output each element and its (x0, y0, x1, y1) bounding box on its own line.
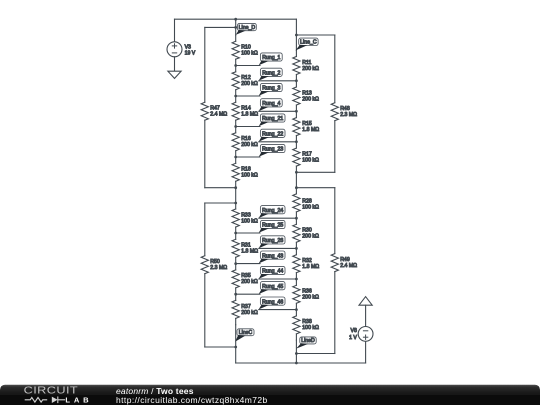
svg-text:Rung_22: Rung_22 (262, 132, 283, 138)
svg-text:2.4 MΩ: 2.4 MΩ (210, 112, 227, 118)
svg-text:1.8 MΩ: 1.8 MΩ (302, 127, 319, 133)
svg-text:V3: V3 (185, 44, 191, 50)
svg-text:LAB: LAB (65, 395, 90, 404)
svg-text:100 kΩ: 100 kΩ (241, 173, 258, 179)
svg-text:Rung_23: Rung_23 (262, 147, 283, 153)
svg-text:100 kΩ: 100 kΩ (241, 218, 258, 224)
svg-text:1.8 MΩ: 1.8 MΩ (241, 112, 258, 118)
svg-text:Rung_24: Rung_24 (262, 208, 283, 214)
svg-text:LineC: LineC (239, 330, 253, 336)
svg-text:19 V: 19 V (185, 51, 196, 57)
svg-text:100 kΩ: 100 kΩ (302, 157, 319, 163)
svg-text:Rung_46: Rung_46 (262, 299, 283, 305)
svg-text:200 kΩ: 200 kΩ (302, 295, 319, 301)
svg-text:Rung_45: Rung_45 (262, 284, 283, 290)
svg-text:100 kΩ: 100 kΩ (302, 205, 319, 211)
svg-text:LineD: LineD (301, 338, 315, 344)
svg-text:Rung_25: Rung_25 (262, 223, 283, 229)
svg-text:200 kΩ: 200 kΩ (302, 234, 319, 240)
svg-text:Rung_43: Rung_43 (262, 253, 283, 259)
svg-text:200 kΩ: 200 kΩ (302, 96, 319, 102)
svg-text:200 kΩ: 200 kΩ (241, 142, 258, 148)
svg-text:1.8 MΩ: 1.8 MΩ (241, 249, 258, 255)
svg-text:200 kΩ: 200 kΩ (241, 310, 258, 316)
svg-text:Line_D: Line_D (239, 25, 256, 31)
svg-text:Rung_2: Rung_2 (262, 71, 280, 77)
svg-text:Rung_44: Rung_44 (262, 269, 283, 275)
svg-text:100 kΩ: 100 kΩ (302, 325, 319, 331)
svg-text:200 kΩ: 200 kΩ (302, 66, 319, 72)
svg-text:Rung_3: Rung_3 (262, 86, 280, 92)
svg-text:1.8 MΩ: 1.8 MΩ (302, 264, 319, 270)
svg-text:100 kΩ: 100 kΩ (241, 51, 258, 57)
svg-text:2.3 MΩ: 2.3 MΩ (340, 112, 357, 118)
svg-text:200 kΩ: 200 kΩ (241, 81, 258, 87)
svg-text:Rung_4: Rung_4 (262, 101, 280, 107)
svg-text:2.3 MΩ: 2.3 MΩ (210, 265, 227, 271)
svg-text:Rung_1: Rung_1 (262, 55, 280, 61)
svg-text:200 kΩ: 200 kΩ (241, 279, 258, 285)
svg-text:V8: V8 (351, 328, 357, 334)
svg-text:1 V: 1 V (349, 335, 357, 341)
svg-text:2.4 MΩ: 2.4 MΩ (340, 263, 357, 269)
svg-text:Rung_26: Rung_26 (262, 238, 283, 244)
svg-text:Line_C: Line_C (300, 40, 317, 46)
svg-text:Rung_21: Rung_21 (262, 116, 283, 122)
